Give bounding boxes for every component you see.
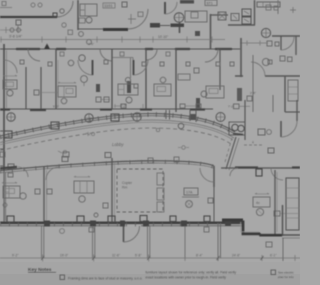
curved wall line4 [0, 122, 233, 145]
wall x5 lower [5, 172, 7, 221]
svg-text:17A: 17A [186, 191, 193, 195]
door arc office2 [100, 49, 112, 61]
wall x220 [219, 49, 221, 90]
wall y76 right [235, 75, 300, 77]
sub wall y57 office3 [112, 58, 133, 62]
svg-text:2'-8": 2'-8" [250, 91, 256, 95]
dim stub y30 [0, 27, 22, 33]
svg-text:plan for info: plan for info [278, 275, 294, 279]
svg-text:Rm: Rm [122, 186, 127, 190]
note checkbox left [60, 275, 65, 280]
door arc room17A [200, 168, 214, 182]
dark block left [150, 23, 160, 28]
dimension line bottom [0, 254, 300, 262]
diagonal lobby wall [226, 137, 236, 169]
wall stub x167 [166, 110, 170, 120]
offices bottom wall y109 [0, 42, 256, 110]
wall box symbol [34, 90, 39, 95]
svg-text:furniture layout shown for ref: furniture layout shown for reference onl… [146, 271, 237, 275]
corridor small rects [60, 52, 64, 56]
svg-text:4'-6": 4'-6" [88, 42, 94, 46]
symbol square [216, 62, 220, 66]
chair right room [256, 208, 263, 215]
svg-text:5'-0": 5'-0" [53, 105, 59, 109]
svg-text:7'-2": 7'-2" [228, 105, 234, 109]
column stub dark [179, 23, 181, 34]
equipment square with X [231, 14, 239, 21]
column circle B [85, 114, 93, 122]
wall y168 right [221, 167, 300, 169]
desk right room [253, 197, 270, 207]
dim ticks [43, 255, 295, 262]
chair [20, 193, 26, 199]
vertical below step [218, 223, 221, 261]
circle marks [79, 32, 84, 37]
tick slashes [41, 256, 263, 260]
thermostat dark bar 2 [127, 81, 131, 93]
tag box [103, 3, 115, 8]
wall right thin continuation [282, 234, 300, 236]
svg-text:exact locations with owner pri: exact locations with owner prior to roug… [146, 276, 227, 280]
step wall [243, 221, 260, 234]
shelving in dashed room [157, 173, 164, 185]
square below wall [89, 228, 94, 233]
left outside box [0, 152, 5, 157]
marks mid top [128, 14, 136, 24]
boxes along lower wall [8, 164, 14, 169]
symbol square [122, 2, 127, 7]
circles on band [178, 123, 184, 129]
door arc y76 [251, 62, 265, 76]
desk bottom room2 [74, 181, 94, 193]
chair office2 [61, 98, 67, 104]
desk 17A [182, 196, 199, 198]
door leaf x165 [164, 2, 166, 14]
box on lower wall [174, 157, 179, 162]
dimension ticks [1, 37, 212, 43]
wall header dark [171, 24, 185, 28]
stair shaft [286, 178, 299, 230]
right mid rooms 240-300 [221, 100, 300, 180]
symbol square [194, 68, 199, 73]
door arc top-left [57, 1, 73, 17]
top-left stub line [0, 7, 12, 9]
door arc left wall [4, 60, 17, 73]
office furniture and symbols [3, 32, 298, 123]
wall x297 [296, 100, 298, 121]
curve end cluster [229, 122, 245, 135]
desk office3 [118, 84, 138, 95]
circle pair below wall [10, 28, 14, 32]
vertical x283 below [282, 238, 284, 261]
desk top room [80, 4, 97, 16]
corridor wall y49 [0, 44, 240, 79]
svg-text:3'-2": 3'-2" [120, 104, 128, 108]
door arc top-mid [128, 9, 148, 29]
dark block top [180, 0, 194, 4]
counter top right [257, 2, 280, 7]
table rect [185, 11, 207, 22]
svg-text:8'-4": 8'-4" [196, 254, 202, 258]
desk bottom room1 [3, 186, 20, 198]
door arc right [281, 37, 294, 50]
wall vertical x210 [210, 14, 212, 49]
chair office1 [7, 90, 13, 96]
dashed line [244, 144, 262, 146]
door arc lobby right [230, 168, 238, 176]
stepped thick wall right [204, 205, 300, 261]
door leaf [280, 121, 282, 137]
symbol circle [68, 60, 74, 66]
wall symbols row [20, 60, 24, 64]
outlet square left [16, 20, 21, 25]
wall top-left horizontal [0, 16, 57, 18]
chair office5 [201, 91, 207, 97]
chair office3 [125, 77, 130, 82]
wall x275 [274, 170, 276, 234]
mullion ticks [0, 222, 215, 226]
column circle C [133, 113, 141, 121]
small box top [8, 173, 13, 177]
dimension arrows room2 [74, 176, 90, 177]
wall left exterior [3, 44, 5, 170]
file cabinet dark [237, 88, 242, 101]
small square [247, 96, 252, 101]
window sill line below [0, 225, 243, 227]
door hardware circle [60, 9, 64, 13]
dashed future room [117, 169, 163, 212]
svg-text:1101: 1101 [104, 3, 113, 8]
column rect on curve [4, 131, 12, 138]
wall x112 [111, 49, 113, 109]
wall x26 [25, 67, 27, 109]
svg-text:Key Notes: Key Notes [28, 267, 52, 273]
lobby plus-circle mark [178, 147, 189, 149]
column circle-cross right [216, 113, 225, 122]
desk office1 [3, 80, 17, 89]
dark square [195, 31, 200, 36]
svg-text:Framing dims are to face of st: Framing dims are to face of stud or maso… [68, 277, 143, 281]
note checkbox right [271, 270, 276, 275]
bottom notes strip background [0, 262, 300, 285]
door arc room2 curve [46, 167, 59, 180]
small box below wall [266, 242, 272, 247]
dimension arrow desk1 [3, 75, 17, 76]
door arc [165, 2, 177, 14]
key notes block [28, 267, 294, 281]
wall x214 [213, 166, 215, 187]
box above shaft [191, 12, 198, 18]
squares right room [280, 56, 285, 61]
chair [79, 196, 85, 202]
wall x78 to x103 [78, 28, 103, 30]
column circle-cross [174, 13, 184, 23]
right vertical stub [277, 0, 279, 14]
file bar office5 [196, 98, 200, 108]
curved window wall line1 [0, 114, 235, 137]
wall x112 [111, 158, 113, 222]
door arc office3 [146, 49, 157, 60]
svg-text:19'-0": 19'-0" [60, 254, 68, 258]
svg-text:ST1: ST1 [207, 2, 213, 6]
wall headers [235, 166, 300, 168]
thermostat dark bar [96, 84, 100, 92]
door marker triangle [44, 44, 50, 50]
lobby misc mark2 [58, 151, 62, 153]
door arc mid2 [133, 60, 148, 75]
office partitions [4, 38, 300, 222]
door arc office4 [205, 49, 218, 62]
wall x285 [284, 76, 286, 112]
dimension row y39 [0, 35, 268, 46]
lower wall ticks [0, 162, 214, 172]
wall horizontal y25 [228, 24, 255, 26]
diagonal dashed [225, 138, 232, 162]
wall box [35, 189, 40, 194]
box with wire top [234, 104, 240, 109]
wall stub x193 with block [190, 110, 196, 122]
door arc right room [271, 168, 283, 180]
small sq [2, 2, 6, 6]
dark seg on lower wall [0, 167, 17, 169]
box on left wall [63, 152, 69, 157]
wall x245 [244, 100, 246, 140]
svg-text:6'-1": 6'-1" [270, 254, 276, 258]
curve mullion ticks [0, 115, 235, 138]
column rect on curve [111, 114, 119, 121]
wall right y36 [272, 35, 300, 37]
column circle-cross [261, 28, 270, 37]
svg-text:Copier: Copier [122, 181, 133, 185]
svg-text:Lobby: Lobby [112, 142, 124, 147]
wall y112 right [285, 111, 300, 113]
wall line [0, 108, 213, 110]
door leaf x281 [280, 36, 282, 50]
dimension arrow [58, 82, 76, 83]
closet line x130 [130, 58, 132, 78]
tag box [205, 0, 217, 6]
label box 17A [184, 188, 198, 195]
wire stub [17, 25, 19, 29]
desk office4 [154, 84, 171, 96]
column circle A [7, 113, 15, 121]
column rect on curve [51, 122, 59, 129]
wall headers thick [0, 108, 205, 111]
wall y25 [150, 25, 170, 27]
section marker circle [79, 55, 85, 61]
symbol circle w stem [81, 76, 88, 83]
wall x146 [145, 49, 147, 109]
svg-text:3'-6 1/4": 3'-6 1/4" [9, 35, 23, 39]
exterior door leaf [123, 226, 125, 242]
desk office5 [206, 86, 224, 98]
wall box w wire [274, 211, 280, 216]
circle symbol [267, 130, 272, 135]
curved window wall line2 [0, 116, 235, 139]
right room desk dimension [255, 193, 269, 194]
outlet + wire [96, 97, 101, 102]
equipment square with X [218, 12, 226, 20]
top strip extra details [0, 0, 296, 56]
lobby lower wall line1 [0, 161, 214, 171]
dim line [0, 257, 300, 259]
svg-text:4x: 4x [256, 201, 260, 205]
outlet w line [121, 104, 126, 108]
grid line verticals below wall [42, 226, 44, 258]
svg-text:4: 4 [252, 141, 254, 145]
circle below wall [60, 229, 65, 234]
wall boxes [47, 189, 52, 194]
stacked squares [242, 9, 251, 16]
wall x241 [240, 38, 242, 77]
dimension line [0, 39, 225, 41]
bottom rooms [6, 158, 215, 222]
chair 17A [186, 201, 193, 208]
right sq pair [266, 5, 271, 10]
door arc mid [78, 60, 93, 75]
main wall line [0, 222, 243, 225]
wall vertical x78 [77, 0, 79, 30]
chair office4 [160, 77, 166, 83]
wall vertical x296 [295, 36, 297, 55]
wall header thick [103, 28, 128, 31]
door arc room1 top [18, 167, 28, 177]
dashed soffit curve [0, 128, 231, 151]
lobby misc mark [86, 132, 90, 136]
wall jamb block [53, 13, 57, 17]
twin circles top-left [31, 3, 35, 7]
outlet squares right [267, 41, 272, 46]
cabinet small [79, 18, 85, 23]
wall x176 [175, 49, 177, 112]
left edge ticks [0, 131, 4, 166]
open squares above wall [7, 216, 14, 222]
box symbol [258, 129, 265, 135]
wall box [208, 198, 213, 203]
svg-text:24'-6": 24'-6" [232, 254, 240, 258]
circle near arc [62, 23, 66, 27]
dimension line right [240, 42, 268, 44]
dark posts in wall [44, 221, 50, 227]
tag circle room1 [3, 203, 7, 207]
wall x41 [40, 67, 42, 109]
wall line [0, 48, 240, 50]
wall x56 [55, 49, 57, 109]
svg-text:10'-10": 10'-10" [158, 35, 168, 39]
svg-text:11'-6": 11'-6" [112, 254, 120, 258]
exterior door arc [124, 226, 140, 242]
tick marks right [290, 7, 296, 13]
wall corner y15 [211, 14, 228, 16]
box on lower wall2 [148, 158, 153, 163]
tall cabinet right [288, 80, 298, 101]
box symbol [268, 148, 274, 153]
door arc office1 [28, 49, 40, 61]
svg-text:5'-8": 5'-8" [135, 254, 141, 258]
lobby lower wall line2 [0, 163, 214, 173]
door arc [281, 121, 297, 137]
desk office2 [58, 86, 76, 97]
jamb block [256, 169, 262, 176]
wall vertical x254 [254, 0, 256, 25]
chair circle [86, 17, 92, 23]
bottom exterior wall [0, 216, 243, 259]
tag box office5 [178, 74, 190, 80]
wall x44 [43, 167, 45, 222]
door leaf dark [92, 60, 94, 75]
svg-text:9'-2": 9'-2" [12, 254, 18, 258]
inner light line [241, 222, 259, 232]
curved wall line3 [0, 120, 234, 143]
lobby curved band [0, 104, 250, 177]
wall headers thick [16, 48, 232, 50]
sq top mid [138, 12, 143, 17]
dim arrow room1 [2, 182, 17, 183]
sq below arc [68, 30, 73, 35]
